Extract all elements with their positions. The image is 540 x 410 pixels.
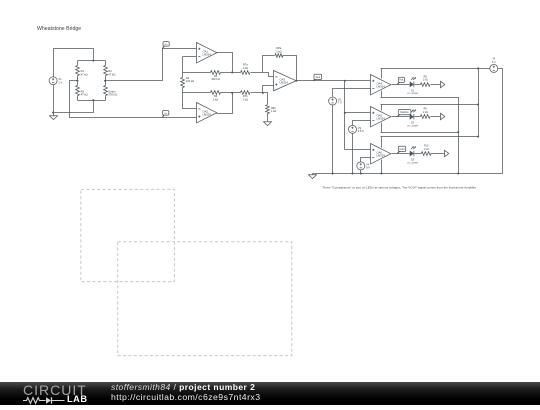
svg-text:1 V: 1 V — [58, 80, 62, 84]
ground (R8b) — [264, 121, 272, 126]
output port row2 — [441, 113, 445, 119]
svg-text:LM324: LM324 — [280, 81, 289, 85]
wire OA3 - node up to R8a — [263, 56, 275, 73]
svg-text:1 kΩ: 1 kΩ — [243, 97, 248, 101]
wire OA4 V- pin stub — [381, 91, 383, 98]
wire V5- down to ground rail — [498, 69, 503, 174]
svg-text:1 kΩ: 1 kΩ — [213, 97, 218, 101]
logo wire-resistor-diode glyph — [23, 396, 65, 405]
node V+ bus row3 — [477, 136, 479, 138]
flag Hot — [397, 82, 400, 84]
flag Cold — [397, 151, 400, 153]
node V+ bus row2 — [477, 104, 479, 106]
wire VOUT bus down — [344, 81, 346, 150]
voltage source V3 (3.5 V) — [349, 125, 357, 133]
LED D1 (LTL-307EE) — [410, 81, 414, 87]
resistor R10 — [421, 152, 431, 156]
wire LED D2 to R9 — [415, 116, 421, 118]
svg-text:100 kΩ: 100 kΩ — [211, 77, 219, 81]
resistor R8 — [420, 83, 430, 87]
svg-text:7 V: 7 V — [338, 101, 342, 105]
op-amp OA4 (LM324) comparator — [371, 75, 391, 95]
svg-text:9 V: 9 V — [366, 166, 370, 170]
wire R8a to OA3 output — [283, 56, 297, 81]
wire OA5 V+ pin stub — [381, 105, 383, 111]
wire VOUT to OA5 + — [345, 112, 371, 114]
svg-text:47 kΩ: 47 kΩ — [108, 73, 115, 77]
wire V3- to ground rail — [352, 134, 354, 174]
wire R9 to output port — [431, 116, 441, 118]
wire V1- down — [53, 85, 55, 115]
wire OA1 output feedback — [217, 53, 233, 73]
wire bridge right tap to OA1 + — [106, 49, 197, 81]
op-amp OA6 (LM324) comparator — [371, 144, 391, 164]
resistor R2 — [77, 81, 79, 86]
svg-text:Wheatstone Bridge: Wheatstone Bridge — [37, 26, 81, 32]
output port row3 — [445, 150, 449, 156]
wire bridge bottom rail — [78, 100, 106, 102]
wire V1+ to bridge top — [54, 49, 94, 77]
op-amp OA3 (LM324) — [274, 71, 297, 91]
svg-text:LM324: LM324 — [377, 117, 386, 121]
svg-text:OA5: OA5 — [377, 113, 383, 117]
svg-text:47 kΩ: 47 kΩ — [81, 73, 88, 77]
wire R7a to OA3 - node — [251, 72, 263, 74]
node V4- ground — [360, 173, 362, 175]
wire OA6 output to LED D3 — [392, 153, 410, 155]
svg-text:Cold: Cold — [400, 148, 406, 151]
svg-text:5 V: 5 V — [492, 61, 496, 64]
svg-text:OA3: OA3 — [280, 77, 286, 81]
node VOUT bus top — [344, 80, 346, 82]
svg-text:100 kΩ: 100 kΩ — [186, 79, 194, 83]
dashed selection box 2 — [118, 242, 292, 356]
svg-text:1 kΩ: 1 kΩ — [423, 79, 428, 82]
svg-text:3.5 V: 3.5 V — [358, 129, 364, 133]
svg-text:378 kΩ: 378 kΩ — [108, 93, 117, 97]
wire to R8b — [263, 93, 268, 105]
wire R7b to OA3 + node — [251, 92, 263, 94]
svg-text:OA1: OA1 — [203, 49, 209, 53]
wire OA4 output to LED D1 — [392, 84, 410, 86]
op-amp OA5 (LM324) comparator — [371, 107, 391, 127]
wire V- rail row1 and bus down — [381, 98, 459, 174]
wire OA6 V- pin stub — [381, 160, 383, 174]
svg-text:47 kΩ: 47 kΩ — [81, 93, 88, 97]
svg-text:LM324: LM324 — [377, 154, 386, 158]
svg-text:OA2: OA2 — [203, 109, 209, 113]
resistor R3 — [105, 61, 107, 66]
resistor R7b — [241, 91, 251, 95]
node OA3 output feedback — [296, 80, 298, 82]
resistor R1 — [77, 61, 79, 66]
svg-text:Va-: Va- — [164, 113, 167, 115]
wire R5 to R7a — [221, 72, 241, 74]
node bridge right tap — [104, 80, 106, 82]
svg-text:OA4: OA4 — [377, 81, 383, 85]
wire V+ rail row3 — [381, 136, 479, 138]
svg-text:LTL-307EE: LTL-307EE — [407, 93, 418, 95]
node OA2 out / R6-R7b — [231, 92, 233, 94]
wire ground rail — [313, 173, 503, 175]
wire OA2 output feedback — [217, 93, 233, 114]
wire OA5 output to LED D2 — [392, 116, 410, 118]
wire OA3 output to comparators (VOUT net) — [297, 80, 371, 82]
wire VOUT to OA6 + — [345, 149, 371, 151]
node V- bus row2 — [457, 131, 459, 133]
svg-text:Three "Comparators" to turn on: Three "Comparators" to turn on LEDs at v… — [322, 186, 476, 190]
wire V+ rail row1 to V5 — [381, 68, 490, 70]
wire bridge top rail — [78, 60, 106, 62]
wire V3+ to OA5 - — [353, 121, 371, 126]
node bridge left tap — [76, 80, 78, 82]
node OA6 V- ground — [381, 173, 383, 175]
node OA3 + / R8b — [262, 92, 264, 94]
node V1- / bridge bottom — [52, 112, 54, 114]
wire R5 left — [183, 72, 211, 74]
wire OA6 V+ pin stub — [381, 137, 383, 148]
node V- bus at ground rail — [457, 173, 459, 175]
wire OA2 - input — [183, 93, 197, 109]
flag Va+ — [162, 46, 164, 49]
wire V4+ to OA6 - — [361, 158, 371, 162]
resistor R7a — [241, 71, 251, 75]
LED D3 (LTL-307EE) — [410, 151, 414, 157]
node bridge bottom junction — [92, 99, 94, 101]
flag Va- — [162, 115, 164, 118]
svg-text:LTL-307EE: LTL-307EE — [407, 162, 418, 164]
wire OA1 - to R5/R4 node — [182, 57, 184, 73]
op-amp OA1 (LM324) — [197, 43, 217, 63]
svg-text:LM324: LM324 — [377, 85, 386, 89]
wire OA5 V- pin stub — [381, 123, 383, 133]
wire V2+ to OA4 - — [333, 89, 371, 97]
svg-text:1 kΩ: 1 kΩ — [243, 66, 248, 70]
node OA1 out / R5-R7a — [231, 72, 233, 74]
svg-text:LM324: LM324 — [203, 113, 212, 117]
wire R6 left — [183, 92, 211, 94]
resistor R9 — [420, 115, 430, 119]
wire into OA3 + input — [263, 86, 274, 93]
svg-text:LM324: LM324 — [203, 53, 212, 57]
ground (bridge) — [50, 115, 58, 120]
wire LED D1 to R8 — [415, 84, 421, 86]
resistor Strain gauge — [105, 81, 107, 86]
wire into OA3 - input — [263, 73, 274, 77]
wire V+ rail row2 — [381, 104, 479, 106]
svg-text:1 kΩ: 1 kΩ — [423, 111, 428, 114]
op-amp OA2 (LM324) — [197, 103, 217, 123]
wire R6 to R7b — [221, 92, 241, 94]
svg-text:Vout: Vout — [315, 76, 320, 79]
voltage source V4 (9 V) — [357, 162, 365, 170]
resistor R4 (gain) — [182, 73, 184, 78]
voltage source V2 (7 V) — [329, 97, 337, 105]
voltage source V5 (5 V) — [490, 64, 498, 72]
svg-text:Medium: Medium — [400, 111, 409, 114]
flag Medium — [397, 114, 400, 116]
node V3- ground — [352, 173, 354, 175]
output port row1 — [441, 81, 445, 87]
ground (comparator rail) — [309, 174, 317, 179]
wire OA4 V+ pin stub — [381, 69, 383, 79]
node V+ bus top — [477, 67, 479, 69]
wire bridge bottom to ground net — [54, 101, 94, 113]
resistor R5 — [211, 71, 221, 75]
wire V4- to ground rail — [360, 170, 362, 174]
svg-text:1 kΩ: 1 kΩ — [276, 49, 281, 53]
svg-text:LTL-307EE: LTL-307EE — [407, 126, 418, 128]
node VOUT bus to OA5 — [344, 112, 346, 114]
resistor R6 — [211, 91, 221, 95]
svg-text:OA6: OA6 — [377, 150, 383, 154]
wire R8 to output port — [431, 84, 441, 86]
voltage source V1 (1 V) — [49, 77, 57, 85]
footer project text — [111, 382, 261, 402]
wire LED D3 to R10 — [415, 153, 422, 155]
wire bridge left tap to OA2 + — [70, 81, 197, 118]
footer bar — [0, 382, 540, 405]
svg-text:Hot: Hot — [400, 79, 404, 82]
node bridge top junction — [92, 60, 94, 62]
dashed selection box 1 — [81, 189, 175, 281]
resistor R8a — [275, 54, 283, 58]
LED D2 (LTL-307EE) — [410, 114, 414, 120]
wire V- rail row2 — [381, 132, 459, 134]
wire OA1 - input — [183, 56, 197, 58]
flag Vout — [313, 79, 316, 81]
CircuitLab logo — [23, 383, 103, 405]
wire V+ bus vertical — [478, 69, 480, 137]
wire R10 to output port — [431, 153, 445, 155]
wire V2- to ground rail — [332, 105, 334, 174]
node V2- ground — [332, 173, 334, 175]
svg-text:1 kΩ: 1 kΩ — [271, 110, 276, 113]
svg-text:1 kΩ: 1 kΩ — [424, 148, 429, 151]
